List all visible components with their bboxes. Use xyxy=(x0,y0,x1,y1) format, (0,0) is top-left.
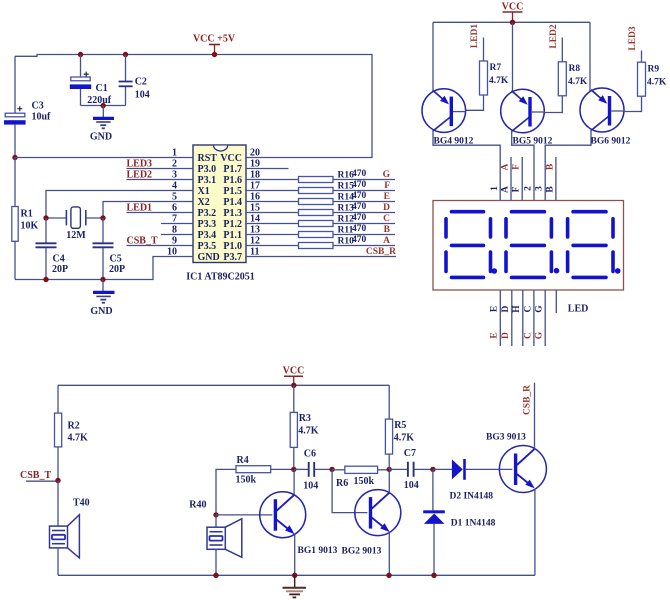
wire BG2 base route xyxy=(332,469,367,512)
svg-text:C6: C6 xyxy=(304,449,316,460)
wire pin 19 stub xyxy=(246,168,289,170)
resistor R10 470 xyxy=(246,235,395,248)
resistor R12 470 xyxy=(246,213,395,226)
svg-text:P1.7: P1.7 xyxy=(223,164,242,175)
junction C5 bottom xyxy=(100,277,105,282)
display LED module body xyxy=(433,201,624,291)
svg-text:LED: LED xyxy=(568,304,589,315)
svg-text:P1.5: P1.5 xyxy=(223,186,242,197)
wire bottom ground rail xyxy=(58,574,535,576)
junction D1 rail xyxy=(431,573,436,578)
svg-text:P3.2: P3.2 xyxy=(198,208,217,219)
IC U1 AT89C2051 body xyxy=(193,145,246,263)
transistor BG5 9012 xyxy=(501,89,545,133)
svg-text:R7: R7 xyxy=(490,63,502,73)
resistor R8 4.7K xyxy=(558,38,588,96)
svg-text:BG3 9013: BG3 9013 xyxy=(486,433,526,443)
svg-text:BG1 9013: BG1 9013 xyxy=(298,546,338,556)
junction C6 R6 xyxy=(329,467,334,472)
svg-text:F: F xyxy=(512,164,522,170)
wire BG3 collector to CSB_R xyxy=(534,383,536,449)
wire net B stub top xyxy=(555,157,557,201)
svg-text:LED3: LED3 xyxy=(628,26,638,51)
junction VCC tap xyxy=(212,52,217,57)
wire BG3 emitter to ground rail xyxy=(534,489,536,575)
svg-text:P1.0: P1.0 xyxy=(223,241,242,252)
wire pin 8 stub xyxy=(161,234,193,236)
svg-text:R5: R5 xyxy=(394,420,406,431)
svg-text:D: D xyxy=(501,305,511,312)
junction C1 top xyxy=(78,52,83,57)
junction pin1 left rail xyxy=(12,155,17,160)
wire pin 6 stub xyxy=(127,212,194,214)
junction C2 top xyxy=(123,52,128,57)
resistor R9 4.7K xyxy=(638,51,667,97)
svg-text:C1: C1 xyxy=(96,83,108,94)
ground GND1 xyxy=(90,106,114,143)
capacitor C6 104 xyxy=(294,449,332,492)
svg-text:VCC +5V: VCC +5V xyxy=(193,34,236,45)
display digit 2 xyxy=(506,212,551,278)
diode D1 1N4148 xyxy=(423,469,445,575)
svg-text:BG2 9013: BG2 9013 xyxy=(342,547,382,557)
wire VCC rail right xyxy=(433,21,590,23)
svg-text:470: 470 xyxy=(352,235,367,245)
capacitor C4 20P xyxy=(36,218,69,280)
svg-text:20: 20 xyxy=(250,148,260,159)
svg-text:R3: R3 xyxy=(299,413,311,424)
svg-text:104: 104 xyxy=(303,481,318,492)
svg-text:P3.5: P3.5 xyxy=(198,241,217,252)
svg-text:220uf: 220uf xyxy=(87,95,112,106)
capacitor C5 20P xyxy=(93,218,126,280)
diode D2 IN4148 xyxy=(433,459,512,480)
wire display bottom H xyxy=(522,290,524,346)
resistor R16 470 xyxy=(246,169,395,182)
svg-text:D: D xyxy=(501,332,511,339)
svg-text:C7: C7 xyxy=(404,448,416,459)
svg-text:E: E xyxy=(490,332,500,338)
svg-text:A: A xyxy=(501,163,511,170)
junction crystal right xyxy=(100,215,105,220)
svg-text:470: 470 xyxy=(352,202,367,212)
wire BG6 emitter from rail xyxy=(589,22,591,91)
wire pin 10 GND route xyxy=(15,257,193,280)
wire R4 to R40 column xyxy=(216,469,236,515)
resistor R13 470 xyxy=(246,202,395,215)
junction VCC bottom tap xyxy=(291,383,296,388)
svg-text:A: A xyxy=(383,236,390,246)
wire display bottom D xyxy=(511,290,513,346)
svg-text:D2 IN4148: D2 IN4148 xyxy=(450,492,494,502)
wire pin 11 stub xyxy=(246,256,396,258)
svg-text:R4: R4 xyxy=(237,455,249,466)
display digit 3 xyxy=(568,212,613,278)
svg-text:F: F xyxy=(384,181,390,191)
wire net F stub top xyxy=(521,157,523,201)
capacitor C2 104 xyxy=(119,55,150,106)
transistor BG6 9012 xyxy=(580,88,624,132)
junction C7 D2 D1 xyxy=(430,467,435,472)
svg-text:LED2: LED2 xyxy=(549,24,559,49)
resistor R3 4.7K xyxy=(290,385,319,469)
svg-text:P1.1: P1.1 xyxy=(223,230,242,241)
svg-text:VCC: VCC xyxy=(220,153,242,164)
display digit 2 decimal point xyxy=(554,268,560,274)
junction R3 C6 BG1 xyxy=(291,467,296,472)
resistor R6 150k xyxy=(332,466,389,489)
junction C1 C2 gnd xyxy=(101,103,106,108)
wire R9 to BG6 base xyxy=(624,96,642,111)
wire pin 1 RST xyxy=(15,157,193,159)
wire BG1 collector xyxy=(293,469,295,494)
svg-text:C: C xyxy=(383,214,390,224)
svg-text:LED3: LED3 xyxy=(127,158,153,169)
junction crystal left xyxy=(43,215,48,220)
wire net A stub top xyxy=(510,157,512,201)
junction C4 bottom xyxy=(43,277,48,282)
wire BG2 collector xyxy=(388,469,390,492)
resistor R5 4.7K xyxy=(385,385,414,469)
wire R8 to BG5 base xyxy=(544,96,562,113)
svg-text:G: G xyxy=(535,305,545,313)
transistor BG1 9013 xyxy=(260,492,306,538)
svg-text:X2: X2 xyxy=(198,197,210,208)
display digit 1 xyxy=(446,212,491,278)
speaker T40 xyxy=(50,481,80,576)
svg-text:10K: 10K xyxy=(21,221,39,232)
net label CSB_T xyxy=(20,470,58,481)
wire BG6 collector to display pin3 xyxy=(545,130,591,201)
svg-text:P1.6: P1.6 xyxy=(223,175,242,186)
wire BG4 collector to display pin1 xyxy=(433,130,500,200)
svg-text:BG6 9012: BG6 9012 xyxy=(591,137,631,147)
ground GND2 xyxy=(90,280,114,317)
svg-text:GND: GND xyxy=(198,252,220,263)
svg-text:R40: R40 xyxy=(189,500,206,511)
resistor R15 470 xyxy=(246,180,395,193)
wire bottom VCC rail xyxy=(58,384,389,386)
wire top rail left section xyxy=(15,55,372,158)
svg-text:R8: R8 xyxy=(569,64,581,74)
svg-text:4.7K: 4.7K xyxy=(394,433,415,444)
wire C1-C2 bottom xyxy=(81,105,126,107)
svg-text:VCC: VCC xyxy=(283,366,305,377)
capacitor C3 xyxy=(4,56,51,157)
junction BG2 emitter rail xyxy=(386,573,391,578)
wire pin 2 stub xyxy=(127,168,194,170)
svg-text:D1 1N4148: D1 1N4148 xyxy=(451,519,496,529)
junction R5 C7 BG2 xyxy=(387,467,392,472)
resistor R11 470 xyxy=(246,224,395,237)
wire R7 to BG4 base xyxy=(466,95,484,110)
svg-text:4.7K: 4.7K xyxy=(647,78,667,88)
svg-text:GND: GND xyxy=(90,306,112,317)
svg-text:P3.4: P3.4 xyxy=(198,230,217,241)
svg-text:VCC: VCC xyxy=(502,2,524,13)
wire display bottom G xyxy=(544,290,546,346)
crystal Y1 12M xyxy=(46,207,103,241)
svg-text:470: 470 xyxy=(352,213,367,223)
svg-text:4.7K: 4.7K xyxy=(568,77,588,87)
svg-text:E: E xyxy=(490,306,500,312)
junction R40 bottom xyxy=(213,573,218,578)
transistor BG4 9012 xyxy=(422,89,466,133)
svg-text:B: B xyxy=(384,225,391,235)
resistor R7 4.7K xyxy=(480,38,509,96)
svg-text:R6: R6 xyxy=(336,478,348,489)
svg-text:RST: RST xyxy=(198,153,218,164)
svg-text:P1.2: P1.2 xyxy=(223,219,242,230)
resistor R1 10K xyxy=(12,158,39,280)
svg-text:20P: 20P xyxy=(109,264,125,275)
capacitor C7 104 xyxy=(389,448,433,491)
svg-text:2: 2 xyxy=(524,186,534,191)
svg-text:150k: 150k xyxy=(236,475,257,486)
junction BG1 emitter rail xyxy=(292,573,297,578)
svg-text:B: B xyxy=(545,186,555,193)
power symbol VCC bottom xyxy=(283,366,305,386)
svg-text:P1.3: P1.3 xyxy=(223,208,242,219)
svg-text:LED1: LED1 xyxy=(127,202,153,213)
wire display bottom E xyxy=(499,290,501,346)
junction VCC right tap xyxy=(510,20,515,25)
wire pin 5 X2 to crystal xyxy=(103,202,193,219)
svg-text:CSB_R: CSB_R xyxy=(366,247,396,257)
wire BG1 emitter to ground rail xyxy=(294,535,296,576)
svg-text:C2: C2 xyxy=(135,76,147,87)
display digit 1 decimal point xyxy=(492,268,498,274)
wire pin 4 X1 to crystal xyxy=(46,191,193,219)
svg-text:470: 470 xyxy=(352,191,367,201)
svg-text:1: 1 xyxy=(490,186,500,191)
svg-text:470: 470 xyxy=(352,224,367,234)
svg-text:P3.7: P3.7 xyxy=(223,252,242,263)
svg-text:12M: 12M xyxy=(66,230,86,241)
wire BG5 collector to display pin2 xyxy=(512,131,534,201)
svg-text:R9: R9 xyxy=(648,65,660,75)
ground earth bottom xyxy=(283,575,307,597)
svg-text:CSB_T: CSB_T xyxy=(127,235,158,246)
svg-text:A: A xyxy=(501,186,511,193)
svg-text:470: 470 xyxy=(352,169,367,179)
svg-text:H: H xyxy=(512,305,522,313)
svg-text:B: B xyxy=(545,163,555,170)
svg-text:R1: R1 xyxy=(21,209,33,220)
power symbol VCC +5V xyxy=(193,34,236,55)
svg-text:T40: T40 xyxy=(73,498,90,509)
capacitor C1 220uf xyxy=(70,55,112,107)
resistor R2 4.7K xyxy=(55,385,89,480)
svg-text:104: 104 xyxy=(135,89,150,100)
svg-text:G: G xyxy=(535,331,545,339)
svg-text:CSB_T: CSB_T xyxy=(20,470,51,481)
svg-text:C3: C3 xyxy=(32,101,44,112)
svg-text:X1: X1 xyxy=(198,186,210,197)
transistor BG3 9013 xyxy=(499,446,546,493)
svg-text:CSB_R: CSB_R xyxy=(522,385,532,415)
svg-text:470: 470 xyxy=(352,180,367,190)
svg-text:3: 3 xyxy=(535,186,545,191)
wire BG1 base xyxy=(216,514,272,516)
wire pin 9 stub xyxy=(127,245,194,247)
svg-text:P3.1: P3.1 xyxy=(198,175,217,186)
wire BG2 emitter to ground rail xyxy=(388,532,390,575)
svg-text:LED1: LED1 xyxy=(470,24,480,49)
wire display bottom C xyxy=(533,290,535,346)
wire pin 7 stub xyxy=(161,223,193,225)
svg-text:4.7K: 4.7K xyxy=(298,426,319,437)
junction R40 top xyxy=(213,512,218,517)
svg-text:104: 104 xyxy=(404,480,419,491)
display digit 3 decimal point xyxy=(615,268,621,274)
resistor R4 150k xyxy=(236,455,294,486)
wire display bottom stub xyxy=(555,290,557,313)
speaker R40 xyxy=(207,515,242,575)
svg-text:20P: 20P xyxy=(52,264,68,275)
svg-text:10uf: 10uf xyxy=(32,112,52,123)
power symbol VCC right xyxy=(502,2,524,23)
transistor BG2 9013 xyxy=(355,490,401,536)
svg-text:P3.0: P3.0 xyxy=(198,164,217,175)
svg-text:D: D xyxy=(383,203,390,213)
svg-text:IC1 AT89C2051: IC1 AT89C2051 xyxy=(186,272,254,283)
wire BG5 emitter from rail xyxy=(512,22,514,92)
svg-text:LED2: LED2 xyxy=(127,169,153,180)
svg-text:E: E xyxy=(384,192,390,202)
svg-text:4.7K: 4.7K xyxy=(68,433,89,444)
svg-text:F: F xyxy=(512,186,522,192)
junction CSB_T xyxy=(55,478,60,483)
wire pin 3 stub xyxy=(127,179,194,181)
svg-text:P1.4: P1.4 xyxy=(223,197,242,208)
svg-text:GND: GND xyxy=(90,132,112,143)
svg-text:C: C xyxy=(523,305,533,312)
svg-text:P3.3: P3.3 xyxy=(198,219,217,230)
svg-text:R2: R2 xyxy=(68,421,80,432)
resistor R14 470 xyxy=(246,191,395,204)
svg-text:4.7K: 4.7K xyxy=(489,76,509,86)
svg-text:150k: 150k xyxy=(354,476,375,487)
wire BG4 emitter from rail xyxy=(432,22,434,92)
svg-text:G: G xyxy=(383,170,391,180)
svg-text:C: C xyxy=(523,332,533,339)
